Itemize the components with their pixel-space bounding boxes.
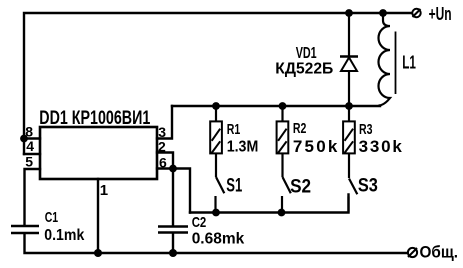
- wire C2 to bottom rail: [172, 233, 174, 253]
- svg-text:L1: L1: [402, 53, 416, 73]
- svg-text:R3: R3: [359, 121, 373, 138]
- node junction pin1 bottom rail: [94, 249, 102, 257]
- switch S1: [216, 177, 225, 213]
- node junction R1 top: [212, 102, 220, 110]
- inductor L1: [379, 13, 396, 106]
- wire bottom common rail: [25, 234, 408, 253]
- svg-text:C1: C1: [45, 210, 58, 226]
- node junction S1 bottom: [212, 209, 220, 217]
- svg-text:0.1mk: 0.1mk: [44, 227, 84, 244]
- switch S3: [349, 179, 358, 213]
- pin 4 stub: [24, 153, 40, 155]
- resistor R2: [277, 106, 289, 177]
- switch S2: [282, 177, 291, 213]
- svg-text:6: 6: [159, 154, 167, 170]
- wire pin6 stub: [157, 167, 173, 169]
- wire pin1 to bottom rail: [97, 179, 99, 253]
- node junction C2 bottom rail: [169, 249, 177, 257]
- wire pin5 to C1: [25, 169, 41, 225]
- svg-text:1: 1: [100, 182, 108, 199]
- terminal Common: [408, 248, 417, 257]
- capacitor C2: [158, 227, 188, 233]
- node junction R3 diode bottom: [345, 102, 353, 110]
- svg-text:R2: R2: [293, 120, 307, 137]
- node junction pin2-pin6: [169, 165, 177, 173]
- svg-text:R1: R1: [227, 121, 241, 138]
- svg-text:4: 4: [26, 138, 34, 154]
- wire resistor top rail: [172, 105, 380, 107]
- wire pin3 to resistor rail: [157, 106, 172, 139]
- svg-text:VD1: VD1: [296, 45, 317, 62]
- IC DD1 box: [40, 127, 157, 179]
- wire pin6 node to C2: [172, 169, 174, 227]
- svg-text:S2: S2: [290, 177, 311, 198]
- svg-text:+Un: +Un: [429, 4, 452, 24]
- node junction diode top: [345, 9, 353, 17]
- resistor R1: [210, 106, 222, 177]
- svg-text:5: 5: [25, 153, 33, 169]
- resistor R3: [343, 106, 355, 178]
- wire pin2 to pin6 node: [157, 153, 173, 169]
- svg-text:330k: 330k: [359, 137, 404, 156]
- svg-text:2: 2: [158, 139, 166, 155]
- svg-text:Общ.: Общ.: [420, 244, 459, 262]
- svg-text:C2: C2: [192, 215, 207, 231]
- terminal +Un: [412, 9, 420, 17]
- svg-text:КД522Б: КД522Б: [275, 61, 333, 78]
- node junction R2 top: [279, 102, 287, 110]
- svg-text:S3: S3: [358, 176, 378, 197]
- node junction L1 top: [379, 9, 387, 17]
- node junction S2 bottom: [278, 209, 286, 217]
- svg-text:0.68mk: 0.68mk: [192, 231, 245, 248]
- diode VD1: [340, 13, 358, 106]
- svg-text:1.3M: 1.3M: [227, 139, 259, 156]
- node junction pins 8-4: [20, 135, 28, 143]
- pin 8 stub: [24, 137, 40, 139]
- svg-text:S1: S1: [226, 176, 242, 197]
- wire top supply rail: [24, 13, 411, 154]
- wire pin6 node to switch rail: [173, 169, 190, 213]
- capacitor C1: [11, 226, 39, 233]
- svg-text:750k: 750k: [293, 137, 340, 156]
- wire switch bottom rail: [190, 195, 349, 213]
- svg-text:DD1 КР1006ВИ1: DD1 КР1006ВИ1: [39, 108, 150, 129]
